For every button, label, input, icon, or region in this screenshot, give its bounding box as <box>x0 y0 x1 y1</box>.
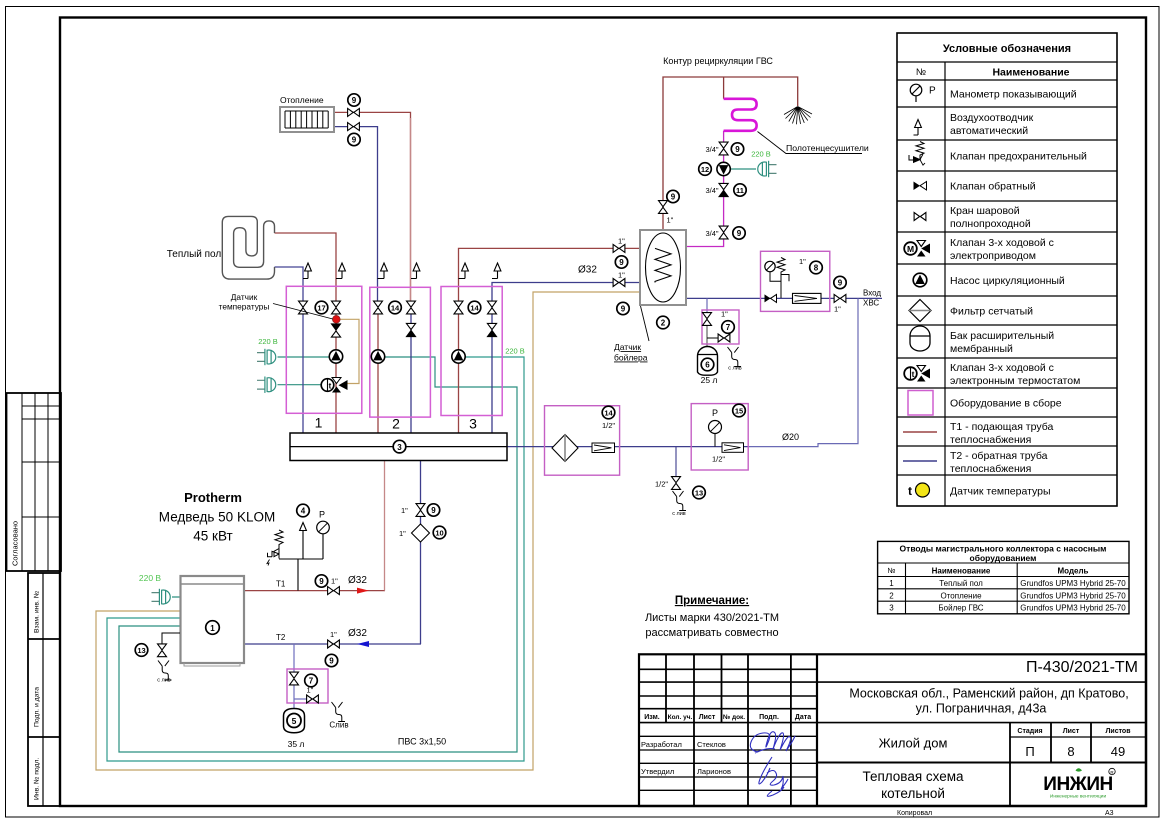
svg-text:17: 17 <box>317 304 325 313</box>
svg-text:Отопление: Отопление <box>280 95 324 105</box>
svg-text:3/4": 3/4" <box>706 186 719 195</box>
legend row5 кран шаровой symbol <box>914 213 926 221</box>
svg-text:Слив: Слив <box>329 721 348 730</box>
svg-text:5: 5 <box>292 716 297 726</box>
svg-text:бойлера: бойлера <box>614 353 648 363</box>
svg-text:1": 1" <box>618 271 625 280</box>
balloon 9 T2 riser <box>427 504 439 516</box>
group1 balloon 17 <box>315 301 328 314</box>
svg-text:8: 8 <box>1067 744 1074 759</box>
box8 manometer <box>765 261 781 281</box>
svg-text:с лив: с лив <box>728 366 742 372</box>
svg-text:Отводы магистрального коллекто: Отводы магистрального коллектора с насос… <box>900 544 1107 554</box>
balloon 7 25l <box>722 321 735 334</box>
svg-text:9: 9 <box>352 96 357 105</box>
svg-text:Protherm: Protherm <box>184 490 242 505</box>
signature squiggle 1 <box>750 732 795 753</box>
warm floor serpentine <box>222 216 274 279</box>
pipe 35l expansion tank branch <box>294 644 317 709</box>
DHW tank body <box>640 230 686 305</box>
svg-text:t: t <box>912 369 915 379</box>
logo ИНЖИН <box>1043 768 1115 799</box>
svg-text:Утвердил: Утвердил <box>641 767 674 776</box>
svg-text:Теплый пол: Теплый пол <box>939 579 983 588</box>
pipe group2 right below valve <box>410 311 412 433</box>
towel pump 12 <box>717 162 730 175</box>
legend row10 клапан 3-х ходовой с электронным термостатом symbol <box>904 366 930 382</box>
balloon 1 boiler <box>206 621 220 635</box>
svg-text:1": 1" <box>399 529 406 538</box>
valve tank top 1" <box>659 201 668 214</box>
svg-text:Московская обл., Раменский рай: Московская обл., Раменский район, дп Кра… <box>849 687 1128 701</box>
svg-text:Клапан 3-х ходовой с: Клапан 3-х ходовой с <box>950 237 1054 249</box>
filter diamond T2 riser <box>412 524 430 542</box>
strainer reducer <box>592 443 615 453</box>
valve boiler T1 <box>328 587 340 595</box>
svg-text:Grundfos UPM3 Hybrid 25-70: Grundfos UPM3 Hybrid 25-70 <box>1020 591 1126 600</box>
svg-text:Согласовано: Согласовано <box>11 521 20 566</box>
svg-text:t: t <box>908 484 912 498</box>
tank sensor pointer <box>641 306 650 341</box>
svg-text:1/2": 1/2" <box>712 455 725 464</box>
svg-text:ул. Пограничная, д43а: ул. Пограничная, д43а <box>916 702 1047 716</box>
boiler Protherm body <box>181 576 245 666</box>
group3 right valve <box>488 301 497 314</box>
radiator Отопление <box>280 107 334 132</box>
group1 3-way thermostat check <box>331 324 340 337</box>
svg-text:9: 9 <box>619 258 624 267</box>
wire pump2 power cable (inner teal loop) <box>119 357 517 752</box>
wire group1 3-way valve 220V lead <box>278 384 322 386</box>
balloon 13 boiler drain <box>135 644 148 657</box>
svg-text:Подп. и дата: Подп. и дата <box>34 687 41 727</box>
pipe makeup drain branch <box>675 447 677 477</box>
svg-text:Стадия: Стадия <box>1017 728 1042 735</box>
svg-text:1": 1" <box>401 506 408 515</box>
svg-text:14: 14 <box>470 304 479 313</box>
svg-text:9: 9 <box>621 305 626 314</box>
svg-text:Датчик: Датчик <box>231 292 258 302</box>
svg-text:Лист: Лист <box>699 714 716 721</box>
svg-text:Инв. № подл.: Инв. № подл. <box>34 758 41 800</box>
svg-text:Датчик температуры: Датчик температуры <box>950 486 1051 498</box>
legend row6 клапан 3-х ходовой с электроприводом symbol <box>904 241 930 257</box>
left sidebar upper table <box>7 393 62 571</box>
collector table (Отводы) <box>878 541 1129 613</box>
svg-text:ХВС: ХВС <box>863 299 879 308</box>
svg-text:1/2": 1/2" <box>602 421 615 430</box>
svg-text:1": 1" <box>618 237 625 246</box>
valve ХВС inlet <box>834 294 846 302</box>
air vent group2 left <box>378 278 385 280</box>
towel heaters pointer line and label <box>758 132 863 154</box>
pipe boiler T1 riser to collector <box>384 461 386 591</box>
balloon 9 towel top <box>731 143 743 155</box>
air vent group1 right <box>336 278 342 280</box>
svg-text:Манометр показывающий: Манометр показывающий <box>950 89 1077 101</box>
svg-text:220 В: 220 В <box>139 573 162 583</box>
svg-text:9: 9 <box>737 229 742 238</box>
svg-text:1": 1" <box>721 310 728 319</box>
svg-text:Клапан предохранительный: Клапан предохранительный <box>950 151 1087 163</box>
25l tank assembly box <box>702 310 739 344</box>
svg-text:Grundfos UPM3 Hybrid 25-70: Grundfos UPM3 Hybrid 25-70 <box>1020 579 1126 588</box>
svg-text:9: 9 <box>735 145 740 154</box>
35l valve <box>290 672 299 685</box>
wire group1 pump 220V lead <box>278 356 330 358</box>
svg-text:Р: Р <box>712 408 718 418</box>
pipe boiler T2 <box>244 643 421 645</box>
pipe tank T2 return <box>492 283 655 434</box>
svg-text:Оборудование в сборе: Оборудование в сборе <box>950 398 1062 410</box>
svg-text:3/4": 3/4" <box>706 145 719 154</box>
svg-text:4: 4 <box>301 507 306 516</box>
drain symbol boiler <box>158 661 172 681</box>
valve towel top 3/4" <box>719 142 728 155</box>
title block outer <box>639 654 1146 806</box>
air vent group1 left <box>303 278 308 280</box>
group1 pump <box>329 350 342 363</box>
red flow arrow on T1 <box>357 588 369 594</box>
svg-text:Бойлер ГВС: Бойлер ГВС <box>938 604 983 613</box>
svg-text:электронным термостатом: электронным термостатом <box>950 375 1080 387</box>
legend row4 клапан обратный symbol <box>914 182 927 191</box>
svg-text:температуры: температуры <box>219 302 270 312</box>
svg-text:Условные обозначения: Условные обозначения <box>943 43 1071 55</box>
balloon 2 tank <box>657 316 670 329</box>
legend row1 манометр symbol <box>910 84 936 102</box>
svg-text:2: 2 <box>392 416 400 432</box>
svg-text:ИНЖИН: ИНЖИН <box>1043 774 1112 795</box>
legend row14 датчик температуры symbol <box>908 483 930 498</box>
pipe towel heater riser (magenta) <box>686 131 724 247</box>
svg-text:13: 13 <box>137 646 145 655</box>
pipe safety group stem <box>279 534 323 591</box>
svg-text:Отопление: Отопление <box>940 591 982 600</box>
wire towel pump 220V lead <box>730 168 756 170</box>
svg-text:Инженерные вентиляции: Инженерные вентиляции <box>1050 794 1107 800</box>
sensor label pointer <box>273 304 333 320</box>
svg-text:1: 1 <box>210 624 215 633</box>
svg-text:Листов: Листов <box>1105 728 1131 735</box>
strainer diamond <box>552 435 578 462</box>
balloon 5 <box>287 714 301 728</box>
svg-text:1": 1" <box>799 257 806 266</box>
svg-text:А3: А3 <box>1105 810 1114 817</box>
svg-text:9: 9 <box>671 193 676 202</box>
svg-text:49: 49 <box>1111 744 1125 759</box>
safety group balloon 4 <box>297 504 310 517</box>
svg-text:Р: Р <box>929 86 936 97</box>
legend row13 T2 line sample <box>903 460 937 462</box>
valve radiator supply <box>348 108 360 116</box>
group3 left valve <box>454 301 463 314</box>
35l tank assembly box <box>287 669 328 703</box>
group2 balloon 14 <box>389 301 402 314</box>
group2 assembly box <box>370 287 431 417</box>
pipe DHW recirculation loop <box>663 77 798 230</box>
svg-text:15: 15 <box>735 407 743 416</box>
balloon 10 filter <box>433 526 446 539</box>
strainer assembly box 14 <box>545 406 620 476</box>
svg-text:Ø32: Ø32 <box>348 575 367 586</box>
25l valve <box>703 313 712 326</box>
blue flow arrow on T2 <box>357 641 369 647</box>
safety group safety valve <box>267 530 283 566</box>
valve boiler T2 <box>328 640 340 648</box>
check valve towel 3/4" <box>719 183 728 196</box>
balloon 9 tank T1/T2 <box>615 256 627 268</box>
svg-text:Насос циркуляционный: Насос циркуляционный <box>950 275 1065 287</box>
drain symbol near 25l <box>728 347 742 367</box>
svg-text:7: 7 <box>726 323 731 332</box>
legend row2 воздухоотводчик symbol <box>914 120 922 136</box>
svg-text:11: 11 <box>736 186 744 195</box>
svg-text:Т2: Т2 <box>276 633 286 642</box>
pipe T2 radiator return <box>334 127 378 306</box>
air vent group3 right <box>492 278 498 280</box>
svg-text:14: 14 <box>604 409 613 418</box>
svg-text:Тепловая схема: Тепловая схема <box>862 769 964 784</box>
svg-text:3: 3 <box>889 604 894 613</box>
svg-text:Изм.: Изм. <box>644 714 660 721</box>
svg-text:ПВС 3x1,50: ПВС 3x1,50 <box>398 737 446 747</box>
DHW tank coil <box>655 248 671 282</box>
svg-text:t: t <box>329 382 332 391</box>
safety group air vent <box>300 523 307 539</box>
svg-text:1/2": 1/2" <box>655 480 668 489</box>
svg-text:Модель: Модель <box>1058 567 1089 576</box>
svg-text:оборудованием: оборудованием <box>970 553 1037 563</box>
svg-text:3: 3 <box>469 416 477 432</box>
svg-text:Копировал: Копировал <box>897 810 932 817</box>
towel heaters fan icon <box>784 107 812 125</box>
towel heater coil (bright magenta) <box>724 99 757 131</box>
group2 pump <box>371 350 384 363</box>
35l expansion tank <box>284 709 305 733</box>
valve T2 riser <box>416 504 425 517</box>
svg-text:теплоснабжения: теплоснабжения <box>950 434 1031 446</box>
svg-text:котельной: котельной <box>881 786 945 801</box>
collector mid line <box>290 446 507 448</box>
svg-text:полнопроходной: полнопроходной <box>950 218 1031 230</box>
svg-text:45 кВт: 45 кВт <box>193 529 232 544</box>
valve radiator return <box>348 123 360 131</box>
svg-text:Вход: Вход <box>863 289 881 298</box>
svg-text:Наименование: Наименование <box>992 67 1069 79</box>
balloon 13 drain <box>693 486 706 499</box>
pressure reducer assembly box 8 <box>761 251 830 311</box>
svg-text:с лив: с лив <box>157 678 171 684</box>
svg-text:Лист: Лист <box>1063 728 1080 735</box>
svg-text:1": 1" <box>307 686 314 695</box>
pipe boiler T2 riser to collector <box>420 461 422 645</box>
balloon 9 boiler T1 <box>315 575 327 587</box>
box15 manometer <box>709 421 722 447</box>
svg-text:Контур рециркуляции ГВС: Контур рециркуляции ГВС <box>663 56 773 66</box>
svg-text:1: 1 <box>315 415 323 431</box>
DHW tank ellipse <box>646 233 681 302</box>
svg-text:10: 10 <box>435 529 443 538</box>
svg-text:2: 2 <box>661 319 666 328</box>
svg-text:Жилой дом: Жилой дом <box>879 736 948 751</box>
svg-text:Взам. инв. №: Взам. инв. № <box>34 591 41 633</box>
wire boiler 220V plug lead <box>172 597 181 611</box>
drain symbol Ø20 line <box>673 491 687 511</box>
pipe T1 radiator supply <box>334 112 411 306</box>
svg-text:7: 7 <box>309 677 314 686</box>
group1 temperature sensor dot <box>333 316 341 324</box>
air vent group3 left <box>459 278 466 280</box>
svg-text:автоматический: автоматический <box>950 125 1028 137</box>
legend row3 клапан предохранительный symbol <box>909 142 925 166</box>
legend row8 фильтр symbol <box>909 300 931 322</box>
svg-text:Подп.: Подп. <box>759 714 779 721</box>
pipe tank T1 supply <box>459 248 656 433</box>
pipe ХВС cold water inlet <box>686 297 882 299</box>
25l drain line and valve <box>707 337 718 339</box>
safety group manometer <box>317 510 330 534</box>
group1 right valve <box>332 301 341 314</box>
svg-text:Стеклов: Стеклов <box>697 740 726 749</box>
plug group1 valve <box>257 377 276 393</box>
svg-text:рассматривать совместно: рассматривать совместно <box>645 627 778 639</box>
svg-text:9: 9 <box>329 657 334 666</box>
collector balloon 3 <box>393 440 406 453</box>
svg-text:Медведь 50 KLOM: Медведь 50 KLOM <box>159 510 275 525</box>
boiler drain valve <box>158 644 167 657</box>
collector body <box>290 433 507 461</box>
svg-text:13: 13 <box>695 489 703 498</box>
svg-text:3: 3 <box>397 443 402 452</box>
balloon 9 radiator return <box>348 133 360 145</box>
balloon 8 <box>810 261 823 274</box>
legend row9 бак расширительный symbol <box>910 326 930 351</box>
svg-text:Т1 - подающая труба: Т1 - подающая труба <box>950 421 1053 433</box>
signature squiggle 2 <box>759 757 788 796</box>
svg-text:Наименование: Наименование <box>932 567 991 576</box>
drain symbol 35l <box>332 702 346 722</box>
svg-text:220 В: 220 В <box>751 150 771 159</box>
svg-text:Кран шаровой: Кран шаровой <box>950 205 1020 217</box>
svg-text:Ø32: Ø32 <box>348 628 367 639</box>
group1 left valve <box>299 301 308 314</box>
balloon 9 ХВС <box>834 276 846 288</box>
svg-text:8: 8 <box>814 264 819 273</box>
balloon 14 strainer <box>602 406 615 419</box>
svg-text:Бак расширительный: Бак расширительный <box>950 330 1054 342</box>
pipe warm floor supply <box>275 233 337 433</box>
svg-text:Кол. уч.: Кол. уч. <box>668 714 693 721</box>
legend row7 насос symbol <box>913 273 927 287</box>
svg-text:1": 1" <box>330 630 337 639</box>
balloon 7 35l <box>305 674 318 687</box>
svg-text:Grundfos UPM3 Hybrid 25-70: Grundfos UPM3 Hybrid 25-70 <box>1020 604 1126 613</box>
svg-text:электроприводом: электроприводом <box>950 250 1036 262</box>
svg-text:1": 1" <box>331 577 338 586</box>
svg-text:Полотенцесушители: Полотенцесушители <box>786 143 869 153</box>
makeup valve assembly box 15 <box>691 404 748 470</box>
svg-text:12: 12 <box>701 165 709 174</box>
valve towel bottom 3/4" <box>719 226 728 239</box>
25l expansion tank <box>698 347 718 376</box>
svg-text:П-430/2021-ТМ: П-430/2021-ТМ <box>1026 659 1138 676</box>
plug group1 pump <box>257 349 276 365</box>
plug boiler <box>152 589 171 605</box>
svg-text:Ларионов: Ларионов <box>697 767 731 776</box>
pipe 25l expansion tank branch <box>706 298 708 313</box>
svg-text:2: 2 <box>889 591 894 600</box>
svg-text:мембранный: мембранный <box>950 343 1013 355</box>
wire group1 sensor to 3-way valve (olive) <box>340 319 359 383</box>
boiler drain pipe <box>162 633 180 645</box>
group1 3-way valve with thermostat <box>321 378 347 393</box>
wire pump3 power cable (middle teal loop) <box>107 357 524 761</box>
balloon 12 towel pump <box>699 163 712 176</box>
svg-text:Т1: Т1 <box>276 580 286 589</box>
wire boiler sensor cable (olive loop) <box>96 292 640 770</box>
balloon 15 <box>733 404 746 417</box>
svg-text:9: 9 <box>319 577 324 586</box>
group3 assembly box <box>441 287 502 416</box>
group3 pump <box>452 350 465 363</box>
svg-text:№ док.: № док. <box>723 714 745 721</box>
svg-text:220 В: 220 В <box>505 347 525 356</box>
group2 left valve <box>374 301 383 314</box>
balloon 9 boiler T2 <box>325 654 337 666</box>
svg-text:№: № <box>887 566 895 575</box>
balloon 9 tank top <box>667 190 679 202</box>
svg-text:теплоснабжения: теплоснабжения <box>950 463 1031 475</box>
box8 check valve <box>765 294 777 302</box>
makeup drain valve 1/2" <box>672 477 681 490</box>
legend row11 оборудование в сборе symbol <box>908 391 933 416</box>
group3 check valve <box>487 323 496 336</box>
svg-text:Клапан обратный: Клапан обратный <box>950 181 1036 193</box>
svg-text:1: 1 <box>889 579 894 588</box>
group3 balloon 14 <box>468 301 481 314</box>
svg-text:Ø20: Ø20 <box>782 432 799 442</box>
plug towel pump <box>758 161 777 177</box>
svg-text:1": 1" <box>834 305 841 314</box>
balloon 9 below tank T2 <box>617 302 629 314</box>
box15 reducer <box>722 443 744 453</box>
svg-text:М: М <box>907 244 914 254</box>
svg-text:№: № <box>916 67 926 78</box>
group2 right valve <box>407 301 416 314</box>
group1 assembly box <box>286 286 362 413</box>
svg-text:Т2 - обратная труба: Т2 - обратная труба <box>950 450 1048 462</box>
svg-text:Воздухоотводчик: Воздухоотводчик <box>950 112 1034 124</box>
svg-text:Дата: Дата <box>795 714 811 721</box>
balloon 9 radiator supply <box>348 94 360 106</box>
svg-text:П: П <box>1025 744 1034 759</box>
svg-text:14: 14 <box>391 304 400 313</box>
left sidebar lower table <box>28 573 60 806</box>
svg-text:Листы марки 430/2021-ТМ: Листы марки 430/2021-ТМ <box>645 612 779 624</box>
svg-text:Фильтр сетчатый: Фильтр сетчатый <box>950 306 1033 318</box>
balloon 9 towel bottom <box>733 227 745 239</box>
svg-text:Теплый пол: Теплый пол <box>167 249 222 260</box>
pipe boiler T1 <box>244 590 385 592</box>
air vent arrows row <box>303 263 501 279</box>
balloon 6 <box>701 358 714 371</box>
svg-text:9: 9 <box>838 279 843 288</box>
svg-text:3/4": 3/4" <box>706 229 719 238</box>
svg-text:220 В: 220 В <box>258 337 278 346</box>
svg-text:1": 1" <box>667 216 674 225</box>
svg-text:Датчик: Датчик <box>614 342 641 352</box>
